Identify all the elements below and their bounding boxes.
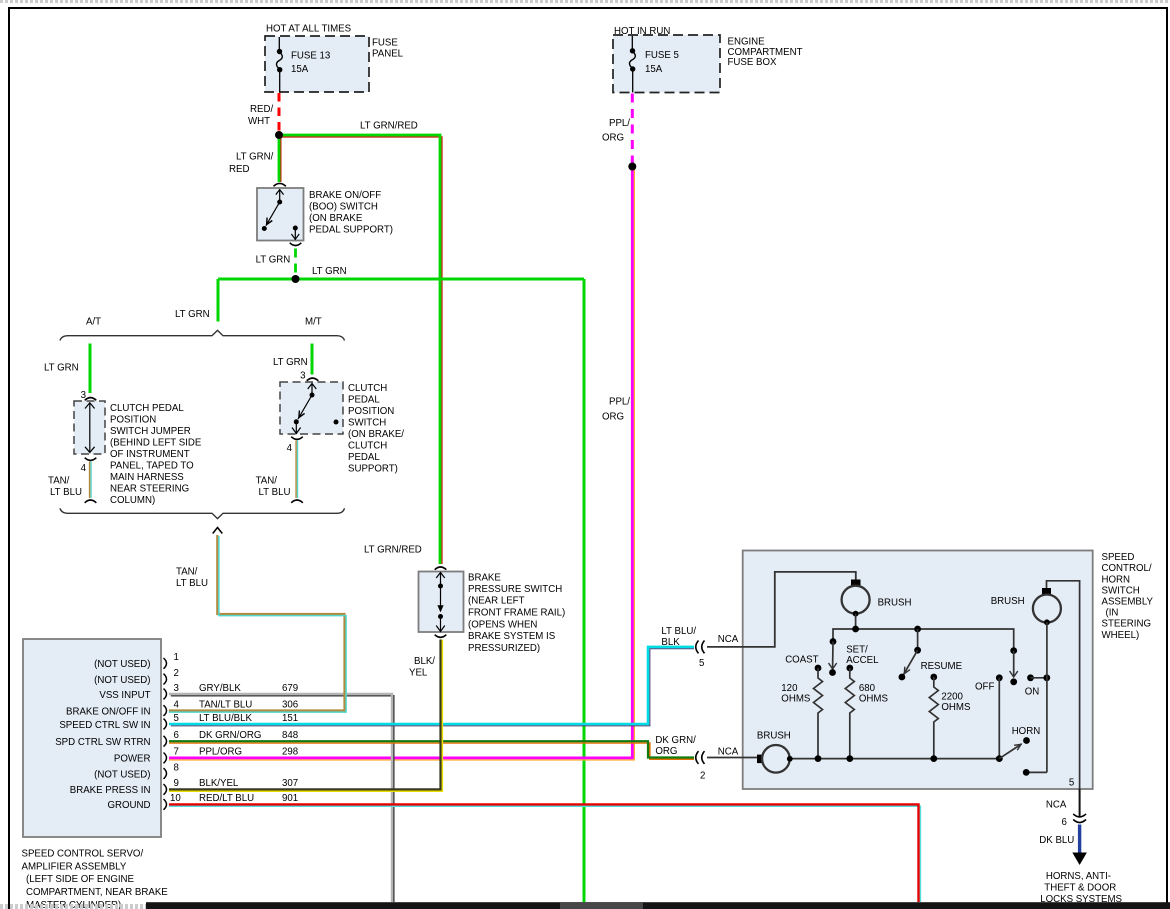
wire DK BLU to horns systems [1078, 825, 1081, 854]
svg-text:WHT: WHT [248, 116, 270, 127]
svg-text:OFF: OFF [975, 682, 994, 693]
svg-text:TAN/: TAN/ [256, 475, 278, 486]
svg-text:LT GRN: LT GRN [273, 357, 308, 368]
svg-text:HORN: HORN [1102, 574, 1131, 585]
junction node RED-WHT / LT GRN-RED [275, 131, 283, 139]
svg-text:4: 4 [81, 463, 87, 474]
pin 4 arc A/T [85, 458, 97, 461]
NCA connector 5 arcs [696, 641, 705, 654]
svg-text:LT GRN/: LT GRN/ [236, 151, 274, 162]
horn wiper [999, 744, 1021, 759]
clutch pedal position switch jumper box [74, 401, 105, 454]
svg-text:(BEHIND LEFT SIDE: (BEHIND LEFT SIDE [110, 438, 202, 449]
jumper double arrow [85, 403, 95, 453]
engine compartment fuse box [613, 35, 720, 93]
svg-text:RED/: RED/ [250, 104, 273, 115]
svg-text:THEFT & DOOR: THEFT & DOOR [1044, 882, 1116, 893]
svg-text:(NEAR LEFT: (NEAR LEFT [468, 595, 525, 606]
bus top [833, 629, 1014, 650]
svg-text:HORNS, ANTI-: HORNS, ANTI- [1046, 871, 1111, 882]
svg-text:CLUTCH: CLUTCH [348, 440, 387, 451]
svg-text:YEL: YEL [409, 667, 428, 678]
BOO switch exit arc [290, 243, 302, 246]
wire LT GRN A/T branch [89, 344, 92, 394]
wire DK GRN/ORG from servo pin 6 to NCA 2 [169, 743, 694, 759]
svg-text:(ON BRAKE/: (ON BRAKE/ [348, 429, 404, 440]
svg-text:298: 298 [282, 747, 298, 758]
svg-text:BRUSH: BRUSH [878, 597, 912, 608]
M/T switch internals [292, 384, 339, 435]
svg-text:(ON BRAKE: (ON BRAKE [309, 213, 363, 224]
pin 3 arc A/T [85, 398, 97, 401]
svg-text:FUSE 5: FUSE 5 [645, 50, 679, 61]
svg-text:A/T: A/T [86, 316, 101, 327]
svg-text:BRAKE: BRAKE [468, 572, 501, 583]
svg-text:STEERING: STEERING [1102, 619, 1152, 630]
M/T wire end arch [291, 500, 303, 503]
wire black assembly pin5 exit to connector [1079, 789, 1081, 817]
svg-text:HOT AT ALL TIMES: HOT AT ALL TIMES [266, 23, 352, 34]
svg-text:DK GRN/ORG: DK GRN/ORG [199, 730, 261, 741]
wire LT GRN/RED junction to BOO switch [280, 135, 282, 182]
svg-text:5: 5 [1069, 777, 1074, 788]
svg-text:1: 1 [174, 652, 179, 663]
svg-text:TAN/: TAN/ [48, 475, 70, 486]
svg-text:CONTROL/: CONTROL/ [1102, 563, 1152, 574]
svg-text:RED/LT BLU: RED/LT BLU [199, 793, 254, 804]
speed control servo connector box [23, 639, 161, 837]
svg-text:PPL/: PPL/ [609, 118, 630, 129]
svg-text:SET/: SET/ [846, 645, 868, 656]
svg-text:PRESSURE SWITCH: PRESSURE SWITCH [468, 584, 562, 595]
svg-text:BLK: BLK [661, 637, 680, 648]
svg-text:PPL/ORG: PPL/ORG [199, 747, 242, 758]
svg-text:HOT IN RUN: HOT IN RUN [614, 26, 670, 37]
svg-text:(NOT USED): (NOT USED) [94, 675, 150, 686]
svg-text:OHMS: OHMS [859, 694, 889, 705]
wire LT BLU/BLK from servo pin 5 to NCA 5 [171, 649, 694, 726]
svg-text:POWER: POWER [114, 754, 151, 765]
svg-text:LT BLU: LT BLU [259, 487, 291, 498]
svg-text:PANEL, TAPED TO: PANEL, TAPED TO [110, 461, 194, 472]
coast contact + 120 ohms resistor [815, 665, 822, 672]
pin 3 arc M/T [307, 378, 319, 381]
svg-text:FUSE: FUSE [372, 37, 398, 48]
wire black NCA2 to assembly lower brush [707, 757, 757, 759]
svg-text:LT GRN: LT GRN [175, 309, 210, 320]
svg-text:PEDAL SUPPORT): PEDAL SUPPORT) [309, 225, 393, 236]
on/off wiper [1010, 647, 1017, 654]
svg-text:3: 3 [300, 371, 305, 382]
svg-text:15A: 15A [291, 64, 309, 75]
svg-text:LT GRN: LT GRN [44, 362, 79, 373]
fuse 5 symbol [629, 36, 635, 93]
wire PPL/ORG long vertical to servo pin 7 [169, 167, 634, 760]
svg-text:8: 8 [174, 762, 179, 773]
brake pressure switch exit arc [435, 635, 447, 638]
svg-text:SUPPORT): SUPPORT) [348, 463, 398, 474]
svg-text:901: 901 [282, 793, 298, 804]
svg-text:ON: ON [1025, 687, 1040, 698]
svg-text:(OPENS WHEN: (OPENS WHEN [468, 619, 537, 630]
set/accel contact + 680 ohms resistor [846, 665, 853, 672]
svg-text:2200: 2200 [941, 692, 963, 703]
assembly internal circuit [757, 580, 1080, 790]
wire black NCA5 to assembly brush [707, 572, 856, 647]
set/accel wiper [830, 638, 837, 645]
svg-text:PPL/: PPL/ [609, 397, 630, 408]
svg-text:SPEED CONTROL SERVO/: SPEED CONTROL SERVO/ [22, 849, 144, 860]
svg-text:(NOT USED): (NOT USED) [94, 769, 150, 780]
svg-text:BRAKE SYSTEM IS: BRAKE SYSTEM IS [468, 631, 556, 642]
junction node LT GRN [292, 275, 300, 283]
svg-text:7: 7 [174, 747, 179, 758]
lower brush square+circle [757, 755, 763, 764]
svg-text:VSS INPUT: VSS INPUT [99, 690, 150, 701]
svg-text:BRUSH: BRUSH [991, 596, 1025, 607]
svg-text:SWITCH: SWITCH [348, 417, 386, 428]
wire TAN/LT BLU pin4 stub A/T [89, 462, 91, 499]
svg-text:BLK/: BLK/ [414, 656, 435, 667]
decorative top strip [0, 0, 1170, 3]
svg-text:TAN/LT BLU: TAN/LT BLU [199, 699, 252, 710]
wire TAN/LT BLU pin4 stub M/T [295, 441, 297, 499]
svg-text:2: 2 [700, 771, 705, 782]
BOO switch entry arc [274, 183, 286, 186]
svg-text:PEDAL: PEDAL [348, 452, 380, 463]
resume wiper [917, 629, 919, 649]
svg-text:4: 4 [174, 699, 180, 710]
fuse panel box [265, 36, 369, 92]
svg-text:ORG: ORG [655, 746, 677, 757]
wire LT GRN down to A/T-M/T brace [217, 279, 220, 322]
svg-text:LT BLU/: LT BLU/ [661, 626, 696, 637]
BOO switch internals [262, 190, 299, 240]
svg-text:CLUTCH: CLUTCH [348, 383, 387, 394]
svg-text:POSITION: POSITION [348, 406, 394, 417]
svg-text:LT BLU: LT BLU [176, 578, 208, 589]
svg-text:OF INSTRUMENT: OF INSTRUMENT [110, 449, 190, 460]
wire LT GRN/RED horizontal+vertical to brake pressure switch [279, 137, 442, 564]
BOO switch box [257, 188, 304, 241]
upper brush square+circle [851, 580, 861, 586]
junction node PPL/ORG [628, 163, 636, 171]
svg-text:(NOT USED): (NOT USED) [94, 659, 150, 670]
svg-text:ACCEL: ACCEL [846, 655, 879, 666]
svg-text:DK GRN/: DK GRN/ [655, 735, 696, 746]
svg-text:307: 307 [282, 778, 298, 789]
svg-text:PEDAL: PEDAL [348, 394, 380, 405]
brace bottom [60, 508, 345, 518]
svg-text:TAN/: TAN/ [176, 566, 198, 577]
svg-text:6: 6 [174, 730, 179, 741]
servo connector in-box labels [55, 659, 150, 811]
wire PPL/ORG dashed from fuse 5 [631, 94, 634, 164]
svg-text:LT GRN: LT GRN [312, 266, 347, 277]
svg-text:COLUMN): COLUMN) [110, 495, 155, 506]
svg-text:OHMS: OHMS [781, 694, 811, 705]
svg-text:NEAR STEERING: NEAR STEERING [110, 484, 189, 495]
svg-text:5: 5 [699, 658, 704, 669]
svg-text:POSITION: POSITION [110, 415, 156, 426]
svg-text:306: 306 [282, 699, 298, 710]
svg-text:5: 5 [174, 713, 179, 724]
svg-text:SWITCH: SWITCH [1102, 585, 1140, 596]
svg-text:SPEED: SPEED [1102, 552, 1135, 563]
resume contact + 2200 ohms resistor [930, 674, 937, 681]
svg-text:2: 2 [174, 668, 179, 679]
bottom bar [0, 902, 1170, 909]
svg-text:BRAKE ON/OFF: BRAKE ON/OFF [309, 190, 381, 201]
svg-text:848: 848 [282, 730, 298, 741]
brake pressure switch entry arc [435, 567, 447, 570]
svg-text:4: 4 [287, 443, 293, 454]
svg-text:HORN: HORN [1012, 726, 1041, 737]
svg-text:OHMS: OHMS [941, 702, 971, 713]
svg-text:BRAKE PRESS IN: BRAKE PRESS IN [70, 785, 151, 796]
wire LT GRN horizontal bus [218, 278, 584, 281]
svg-text:FUSE BOX: FUSE BOX [728, 57, 778, 68]
svg-text:SPEED CTRL SW IN: SPEED CTRL SW IN [59, 720, 150, 731]
svg-text:9: 9 [174, 778, 179, 789]
svg-text:ASSEMBLY: ASSEMBLY [1102, 597, 1154, 608]
svg-text:(LEFT SIDE OF ENGINE: (LEFT SIDE OF ENGINE [26, 874, 135, 885]
brake pressure switch internals [436, 573, 445, 632]
svg-text:NCA: NCA [718, 634, 739, 645]
speed control / horn switch assembly box [743, 551, 1093, 790]
wire BLK/YEL from brake pressure switch to servo pin 9 [169, 640, 442, 792]
svg-text:BRAKE ON/OFF IN: BRAKE ON/OFF IN [66, 706, 151, 717]
svg-text:RED: RED [229, 164, 249, 175]
svg-text:15A: 15A [645, 64, 663, 75]
DK BLU arrowhead [1072, 853, 1087, 866]
svg-text:680: 680 [859, 683, 876, 694]
NCA connector 2 arcs [696, 751, 705, 764]
svg-text:DK BLU: DK BLU [1039, 835, 1074, 846]
wire LT GRN long vertical to page bottom [583, 279, 586, 902]
pin 4 arc M/T [291, 437, 303, 440]
wire TAN/LT BLU from servo pin 4 up to brace [169, 535, 345, 711]
svg-text:LT GRN/RED: LT GRN/RED [360, 120, 418, 131]
svg-text:3: 3 [174, 683, 179, 694]
svg-text:10: 10 [170, 793, 181, 804]
svg-text:(IN: (IN [1106, 608, 1119, 619]
servo pin arcs 1-10 [164, 658, 167, 810]
svg-text:WHEEL): WHEEL) [1102, 630, 1140, 641]
svg-text:NCA: NCA [718, 747, 739, 758]
arrow up to brace center [213, 528, 223, 534]
wire LT GRN M/T branch [311, 344, 314, 375]
off contact [996, 674, 1003, 681]
right brush square+circle [1047, 581, 1080, 789]
svg-text:NCA: NCA [1046, 800, 1067, 811]
svg-text:PRESSURIZED): PRESSURIZED) [468, 643, 540, 654]
A/T wire end arch [85, 500, 97, 503]
svg-text:GROUND: GROUND [107, 800, 150, 811]
on contact [1027, 674, 1034, 681]
svg-text:679: 679 [282, 683, 298, 694]
svg-text:FUSE 13: FUSE 13 [291, 50, 330, 61]
svg-text:LT GRN: LT GRN [256, 254, 291, 265]
svg-text:MAIN HARNESS: MAIN HARNESS [110, 472, 184, 483]
svg-text:6: 6 [1062, 817, 1067, 828]
svg-text:ORG: ORG [602, 412, 624, 423]
svg-text:LT GRN/RED: LT GRN/RED [364, 544, 422, 555]
svg-text:LT BLU/BLK: LT BLU/BLK [199, 713, 252, 724]
svg-text:LT BLU: LT BLU [50, 487, 82, 498]
brace A/T-M/T top [60, 330, 345, 340]
svg-text:3: 3 [81, 390, 86, 401]
svg-text:GRY/BLK: GRY/BLK [199, 683, 241, 694]
svg-text:PANEL: PANEL [372, 48, 404, 59]
svg-text:COMPARTMENT, NEAR BRAKE: COMPARTMENT, NEAR BRAKE [26, 887, 168, 898]
svg-text:COAST: COAST [785, 654, 818, 665]
wire LT GRN dashed below BOO switch [294, 249, 297, 277]
wire RED/WHT dashed from fuse 13 [278, 93, 281, 131]
bottom bus [790, 758, 999, 760]
svg-text:M/T: M/T [305, 316, 322, 327]
clutch pedal position switch box (M/T) [280, 382, 343, 434]
svg-text:SPD CTRL SW RTRN: SPD CTRL SW RTRN [55, 737, 150, 748]
svg-text:AMPLIFIER ASSEMBLY: AMPLIFIER ASSEMBLY [22, 861, 127, 872]
svg-text:RESUME: RESUME [921, 661, 963, 672]
wire RED/LT BLU from servo pin 10 [169, 806, 920, 902]
svg-text:FRONT FRAME RAIL): FRONT FRAME RAIL) [468, 608, 565, 619]
brake pressure switch box [419, 572, 464, 633]
assembly pin6 connector arcs [1073, 814, 1086, 823]
svg-text:CLUTCH PEDAL: CLUTCH PEDAL [110, 403, 184, 414]
svg-text:(BOO) SWITCH: (BOO) SWITCH [309, 202, 378, 213]
fuse 13 symbol [276, 37, 282, 93]
wire GRY/BLK from servo pin 3 [171, 696, 394, 902]
svg-text:BLK/YEL: BLK/YEL [199, 778, 239, 789]
svg-text:ORG: ORG [602, 132, 624, 143]
svg-text:SWITCH JUMPER: SWITCH JUMPER [110, 426, 191, 437]
svg-text:151: 151 [282, 713, 298, 724]
svg-text:BRUSH: BRUSH [757, 730, 791, 741]
svg-text:120: 120 [781, 683, 798, 694]
